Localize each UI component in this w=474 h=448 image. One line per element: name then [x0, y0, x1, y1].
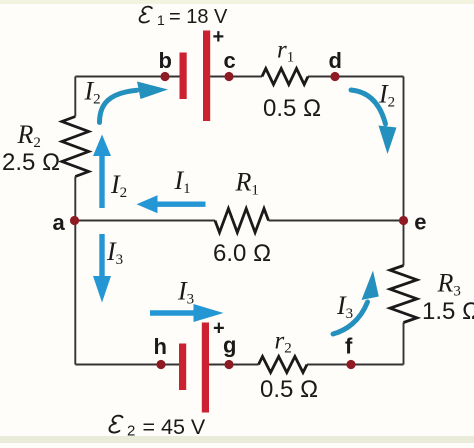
svg-text:+: +: [213, 26, 225, 48]
svg-text:6.0 Ω: 6.0 Ω: [213, 240, 271, 267]
svg-text:1.5 Ω: 1.5 Ω: [422, 298, 474, 325]
svg-text:= 18 V: = 18 V: [169, 6, 228, 28]
svg-text:2.5 Ω: 2.5 Ω: [2, 149, 60, 176]
svg-text:0.5 Ω: 0.5 Ω: [260, 376, 318, 403]
svg-text:g: g: [223, 333, 236, 358]
svg-text:2: 2: [127, 423, 135, 440]
svg-text:d: d: [329, 48, 342, 73]
svg-text:a: a: [53, 210, 66, 235]
svg-text:1: 1: [157, 12, 165, 28]
svg-text:b: b: [159, 48, 172, 73]
svg-text:0.5 Ω: 0.5 Ω: [263, 95, 321, 122]
svg-text:= 45 V: = 45 V: [143, 415, 206, 439]
svg-text:h: h: [154, 334, 167, 359]
svg-text:+: +: [213, 318, 225, 340]
svg-text:c: c: [224, 48, 236, 73]
svg-text:e: e: [414, 210, 426, 235]
svg-text:f: f: [345, 334, 353, 359]
